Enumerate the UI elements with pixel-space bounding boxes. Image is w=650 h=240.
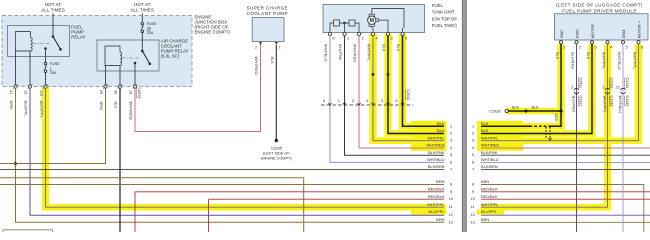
svg-text:BLK: BLK (532, 106, 540, 110)
C2032 pin chevrons (329, 103, 405, 106)
svg-text:BLU/PPL: BLU/PPL (24, 101, 29, 118)
svg-text:WHT/PPL: WHT/PPL (39, 101, 44, 119)
highlight module pin4 WHT/PPL to row 11 (481, 44, 611, 210)
svg-text:WHT/PPL: WHT/PPL (481, 202, 499, 207)
svg-text:119: 119 (39, 90, 43, 96)
svg-text:1: 1 (450, 124, 452, 128)
svg-text:BRN: BRN (481, 179, 489, 184)
wire BLK pump to ground C2635 (275, 45, 278, 142)
svg-text:WHT/PPL: WHT/PPL (481, 135, 499, 140)
svg-text:1: 1 (50, 67, 52, 71)
super charge pump pin 2 (255, 42, 262, 49)
svg-text:3: 3 (450, 139, 452, 143)
left page row labels 1-13 (426, 121, 445, 222)
svg-text:WHT/BLU: WHT/BLU (617, 52, 622, 70)
svg-text:FUEL: FUEL (432, 3, 444, 8)
svg-text:BLK: BLK (481, 128, 489, 133)
wire relay2 coil left leg BRN (105, 66, 107, 87)
module pin label MOTOR + (637, 20, 641, 38)
wire fuse38 to relay2 switch (141, 33, 143, 51)
connector label C2412 (579, 96, 583, 107)
row 8 BRN wire right page with bend down (481, 185, 644, 233)
svg-text:10: 10 (449, 197, 453, 201)
svg-text:ENGINE COMPT): ENGINE COMPT) (195, 30, 231, 35)
svg-text:BLK: BLK (114, 102, 119, 110)
extra BRN wire to lower component (0, 178, 304, 232)
wire label BLK module pin3 (586, 52, 591, 60)
svg-text:RED/BLK: RED/BLK (428, 186, 445, 191)
svg-text:BRN: BRN (481, 217, 489, 222)
svg-text:6: 6 (472, 160, 474, 164)
svg-text:BLK: BLK (270, 57, 275, 65)
wire module pin6 WHT/PPL to row 3 (481, 44, 639, 141)
svg-text:BRN: BRN (99, 102, 104, 110)
row 9 RED/BLK wire left page (135, 192, 444, 232)
fuel tank unit box (323, 5, 425, 33)
svg-text:WHT/BLU: WHT/BLU (481, 157, 499, 162)
connector label C2243 (610, 78, 614, 89)
splice dot WHT/PPL (372, 73, 375, 76)
wire WHT/BLU to row 6 (330, 36, 444, 163)
highlight label block rows 1-4 left page (411, 121, 447, 151)
svg-text:19: 19 (24, 90, 28, 94)
wire WHT/PPL 119 vertical to row 11 (46, 88, 445, 207)
svg-text:4: 4 (610, 46, 612, 50)
air charge coolant pump relay box (97, 40, 159, 71)
svg-text:10: 10 (471, 197, 475, 201)
module pin label GND (560, 30, 564, 39)
C2032 pin numbers (323, 99, 398, 103)
svg-text:BRN: BRN (436, 217, 444, 222)
svg-text:WHT/PPL: WHT/PPL (427, 135, 445, 140)
wire label WHT/PPL 119 (39, 101, 44, 119)
svg-text:(LEFT SIDE OF LUGGAGE COMPT): (LEFT SIDE OF LUGGAGE COMPT) (556, 3, 643, 8)
svg-text:BLK: BLK (437, 121, 445, 126)
wire label BRN 21 (9, 101, 14, 109)
svg-text:11: 11 (471, 205, 475, 209)
svg-text:WHT/RED: WHT/RED (426, 143, 444, 148)
wire label BLK tank pin3 (382, 44, 387, 52)
svg-text:11: 11 (449, 205, 453, 209)
highlight module pin1 BLK to row 1 and C2928 branch (481, 44, 565, 129)
svg-text:ENGINE COMPT): ENGINE COMPT) (261, 157, 292, 161)
svg-text:2: 2 (472, 132, 474, 136)
wire label BLU/RED module pin2 (570, 52, 575, 69)
engine junction box (dashed, blue fill) (2, 16, 192, 87)
svg-text:8: 8 (472, 183, 474, 187)
svg-text:2: 2 (450, 132, 452, 136)
svg-text:3: 3 (381, 99, 383, 103)
right page row labels 1-13 (481, 121, 499, 222)
svg-text:M: M (370, 18, 374, 24)
wire label BLK/PNK tank (338, 44, 343, 61)
junction dot pin1 C2928 (559, 109, 562, 112)
circuit number 19 (24, 90, 28, 94)
wire label WHT/BLU below connector (618, 96, 623, 114)
svg-text:C2411: C2411 (579, 78, 583, 89)
wire BLK 30 vertical off page (119, 88, 121, 232)
highlight BLK fuel tank pin3 (row 2) (385, 34, 447, 134)
svg-text:4: 4 (366, 99, 368, 103)
junction dot BRN (14, 162, 17, 165)
HOT AT ALL TIMES (right) (130, 2, 154, 13)
svg-text:FUSE: FUSE (50, 62, 60, 66)
connector C2032 dashed line (321, 104, 413, 106)
svg-text:WHT/RED: WHT/RED (353, 44, 358, 62)
svg-text:BLK: BLK (437, 128, 445, 133)
svg-text:ALL TIMES: ALL TIMES (41, 8, 65, 13)
wire module pin5 WHT/BLU down off page (622, 44, 624, 232)
svg-text:2: 2 (579, 46, 581, 50)
row 12 BLU/PPL wire right page (481, 214, 650, 216)
svg-text:13: 13 (449, 220, 453, 224)
row 8 BRN wire left page (0, 184, 444, 186)
fuel pump relay actuator dash line (33, 43, 50, 45)
fuel level sender resistors (330, 20, 359, 28)
wire module pin2 BLU/RED down off page (576, 44, 578, 232)
super charge coolant pump box (252, 18, 284, 42)
svg-text:MOTOR +: MOTOR + (637, 20, 641, 38)
svg-text:30: 30 (114, 90, 118, 94)
fuse 1 25A (44, 62, 60, 75)
svg-text:NCA: NCA (554, 114, 558, 122)
row 9 RED/BLK wire right page (481, 191, 650, 193)
wire label WHT/RED 19 (129, 102, 134, 120)
svg-text:1: 1 (279, 45, 281, 49)
circuit number 21 (9, 90, 13, 94)
svg-text:WHT/RED: WHT/RED (129, 102, 134, 120)
svg-text:2: 2 (352, 99, 354, 103)
fuel tank pin numbers (333, 36, 408, 40)
module pin label DNM (622, 30, 626, 39)
wire label WHT/RED pump (254, 57, 259, 75)
svg-text:(LEFT SIDE OF: (LEFT SIDE OF (263, 152, 290, 156)
svg-text:WHT/RED: WHT/RED (481, 143, 499, 148)
wire BRN 21 vertical to row 13 (16, 88, 445, 222)
fuse 38 20A (141, 22, 157, 35)
svg-text:BLU/RED: BLU/RED (572, 96, 577, 113)
svg-text:4: 4 (472, 146, 474, 150)
svg-text:BRN: BRN (436, 179, 444, 184)
svg-text:BLK: BLK (396, 44, 401, 52)
splice dot BLK (387, 73, 390, 76)
svg-text:8: 8 (450, 183, 452, 187)
svg-text:6: 6 (333, 36, 335, 40)
fuel pump relay label (71, 25, 85, 40)
highlight module pin3 BLK to row 2 (481, 44, 596, 137)
row 4 WHT/RED wire right page (481, 147, 650, 149)
svg-text:3: 3 (391, 36, 393, 40)
wire label BLK 30 (114, 102, 119, 110)
wire label WHT/PPL tank (367, 44, 372, 62)
svg-text:1: 1 (602, 85, 604, 89)
dotted jumper row1 to row3 (546, 127, 552, 140)
super charge pump pin 1 (275, 42, 281, 49)
svg-text:SUPER CHARGE: SUPER CHARGE (247, 5, 288, 10)
svg-text:2: 2 (255, 45, 257, 49)
fuel pump relay coil (16, 32, 33, 52)
highlight row12 label right page (477, 210, 504, 215)
wire BLK/PNK to row 5 (345, 36, 445, 156)
svg-text:ALL TIMES: ALL TIMES (130, 8, 154, 13)
svg-text:COOLANT PUMP: COOLANT PUMP (247, 11, 288, 16)
svg-text:WHT/PPL: WHT/PPL (367, 44, 372, 62)
wire label WHT/PPL below connector (603, 96, 608, 114)
svg-text:RELAY: RELAY (71, 35, 85, 40)
wire relay1 coil right leg (29, 51, 31, 87)
svg-text:(5.0L SC): (5.0L SC) (161, 54, 180, 59)
highlight row12 label left page (411, 210, 447, 215)
left page row numbers 1-13 (449, 124, 453, 224)
svg-text:WHT/BLU: WHT/BLU (618, 96, 623, 114)
wire label WHT/PPL module pin4 (601, 52, 606, 70)
svg-text:2: 2 (362, 36, 364, 40)
svg-text:C2635: C2635 (271, 147, 282, 151)
svg-text:1: 1 (347, 36, 349, 40)
highlight module pin6 WHT/PPL to row 3 (481, 44, 642, 144)
svg-text:WHT/PPL: WHT/PPL (632, 52, 637, 70)
connector label C2032 (406, 90, 410, 101)
air charge relay switch (134, 50, 151, 65)
engine junction box label (195, 15, 231, 35)
wire relay1 coil left leg (15, 51, 17, 87)
svg-text:GND: GND (560, 30, 564, 39)
wire fuse1 to connector (45, 73, 47, 87)
connector label C2241 (625, 78, 629, 89)
wire module pin1 BLK to row 1 (481, 44, 561, 126)
row 7 BLK/BRN wire left page (0, 169, 444, 171)
svg-text:7: 7 (472, 168, 474, 172)
svg-text:DNM: DNM (622, 30, 626, 39)
svg-text:C2246: C2246 (610, 96, 614, 107)
svg-text:25A: 25A (50, 71, 57, 75)
circuit number 29 (99, 90, 103, 94)
wire label WHT/PPL module pin6 (632, 52, 637, 70)
svg-text:6: 6 (450, 160, 452, 164)
fuel pump motor wiring (372, 9, 404, 29)
highlight WHT/PPL fuel pump feed (row 3) (370, 34, 447, 141)
svg-text:BLK/PNK: BLK/PNK (428, 150, 445, 155)
wire label BRN 29 (99, 102, 104, 110)
ground C2635 label (261, 147, 292, 161)
svg-text:9: 9 (450, 190, 452, 194)
svg-text:WHT/RED: WHT/RED (254, 57, 259, 75)
row 5 BLK/PNK wire right page (481, 154, 650, 156)
fuel pump relay box (8, 26, 70, 57)
svg-text:1: 1 (337, 99, 339, 103)
svg-text:9: 9 (472, 190, 474, 194)
row 13 BRN wire right page (481, 221, 650, 223)
fuel pump driver module box (555, 14, 649, 40)
svg-text:5: 5 (395, 99, 397, 103)
svg-text:BLU/RED: BLU/RED (570, 52, 575, 69)
wire label WHT/BLU module pin5 (617, 52, 622, 70)
svg-text:TANK UNIT: TANK UNIT (432, 10, 455, 15)
fuel tank unit pin circles (328, 28, 404, 36)
svg-text:6: 6 (641, 46, 643, 50)
highlight label block rows 1-4 right page (477, 121, 523, 151)
svg-text:BLK: BLK (481, 121, 489, 126)
svg-text:7: 7 (450, 168, 452, 172)
air charge coolant pump relay label (161, 39, 189, 59)
svg-text:HOT AT: HOT AT (45, 2, 62, 7)
connector label C2411 (579, 78, 583, 89)
svg-text:DIAG: DIAG (575, 29, 579, 38)
svg-text:20A: 20A (147, 31, 154, 35)
svg-text:29: 29 (99, 90, 103, 94)
wire relay2 common leg WHT/RED (134, 63, 136, 87)
svg-text:BLK: BLK (512, 106, 520, 110)
page divider (462, 0, 467, 232)
svg-text:BLK: BLK (586, 52, 591, 60)
svg-text:WHT/PPL: WHT/PPL (603, 96, 608, 114)
svg-text:5: 5 (450, 153, 452, 157)
module pin label DIAG (575, 29, 579, 38)
svg-text:3: 3 (472, 139, 474, 143)
svg-text:BRN: BRN (9, 101, 14, 109)
wire module pin4 WHT/PPL to row 11 (481, 44, 608, 207)
wire WHT/PPL to row 3 (373, 36, 444, 141)
C2928 ground wire (489, 106, 561, 114)
svg-text:1: 1 (564, 46, 566, 50)
wire label WHT/BLU tank (324, 44, 329, 62)
svg-text:FUEL PUMP DRIVER MODULE: FUEL PUMP DRIVER MODULE (562, 8, 637, 13)
fuel pump motor M (368, 14, 379, 26)
svg-text:BLK/BRN: BLK/BRN (428, 164, 445, 169)
inline connector on pin2 (571, 85, 579, 93)
connector label C8578 (137, 88, 141, 99)
svg-text:WHT/PPL: WHT/PPL (427, 202, 445, 207)
air charge relay actuator dash line (123, 57, 140, 59)
row 1 wire left page end segment (403, 125, 445, 127)
svg-text:WHT/BLU: WHT/BLU (324, 44, 329, 62)
svg-text:BLU/PPL: BLU/PPL (428, 209, 445, 214)
svg-text:C2928: C2928 (489, 110, 500, 114)
highlight WHT/PPL circuit 119 left page (row 11) (42, 87, 446, 207)
NCA label (554, 114, 558, 122)
svg-text:13: 13 (471, 220, 475, 224)
svg-text:4: 4 (376, 36, 378, 40)
svg-text:38: 38 (147, 27, 151, 31)
wire label BLK tank pin5 (396, 44, 401, 52)
connector label C2246 pin4 (610, 96, 614, 107)
svg-text:RED/BLK: RED/BLK (428, 194, 445, 199)
svg-text:C8578: C8578 (137, 88, 141, 99)
inline connector on pin5 (615, 85, 625, 93)
wire hot feed to fuel pump relay (52, 13, 54, 36)
svg-text:BLK: BLK (382, 44, 387, 52)
wire label BLK pump (270, 57, 275, 65)
right page row numbers 1-13 (471, 124, 475, 224)
svg-text:12: 12 (449, 213, 453, 217)
svg-text:RED/BLK: RED/BLK (481, 194, 498, 199)
svg-text:12: 12 (471, 213, 475, 217)
wire label BLK module pin1 (555, 52, 560, 60)
svg-text:WHT/BLU: WHT/BLU (427, 157, 445, 162)
wire hot feed to fuse 38 (141, 13, 143, 22)
wire label BLU/PPL 19 (24, 101, 29, 118)
svg-text:FUEL TANK): FUEL TANK) (432, 23, 458, 28)
svg-text:2: 2 (571, 85, 573, 89)
svg-text:RED/BLK: RED/BLK (481, 186, 498, 191)
row 7 BLK/BRN wire right page (481, 169, 650, 171)
module pin numbers (564, 46, 644, 50)
circuit number 30 (114, 90, 118, 94)
fuel pump relay switch (44, 35, 62, 50)
svg-text:BLU/PPL: BLU/PPL (481, 209, 498, 214)
svg-text:C2246: C2246 (625, 96, 629, 107)
inline connector on pin4 (602, 85, 610, 93)
wire WHT/RED relay2 to super charge pump (135, 42, 261, 132)
fuel tank unit label (432, 3, 458, 28)
svg-text:5: 5 (472, 153, 474, 157)
connector label C2246 pin5 (625, 96, 629, 107)
wire BLU/PPL 19 vertical to row 12 (30, 88, 444, 215)
svg-text:(ON TOP OF: (ON TOP OF (432, 16, 458, 21)
row 10 RED/BLK wire left page (209, 199, 445, 232)
wire relay1 common to fuse 1 (45, 49, 47, 63)
svg-text:BLK/PNK: BLK/PNK (481, 150, 498, 155)
svg-text:C2243: C2243 (610, 78, 614, 89)
svg-text:BLK/BRN: BLK/BRN (481, 164, 498, 169)
HOT AT ALL TIMES (left) (41, 2, 65, 13)
svg-text:BLK/PNK: BLK/PNK (338, 44, 343, 61)
svg-text:6: 6 (323, 99, 325, 103)
svg-text:22: 22 (615, 85, 619, 89)
svg-text:5: 5 (626, 46, 628, 50)
svg-text:3: 3 (595, 46, 597, 50)
svg-text:BLK: BLK (555, 52, 560, 60)
svg-text:WHT/PPL: WHT/PPL (601, 52, 606, 70)
row 10 RED/BLK wire right page (481, 198, 650, 200)
svg-text:FUSE: FUSE (147, 22, 157, 26)
connector circles on junction box border (13, 84, 138, 89)
super charge coolant pump label (247, 5, 288, 16)
wire relay2 coil right leg BLK (119, 66, 121, 87)
wire BRN 29 to left edge (0, 88, 106, 163)
fuel pump driver module header (556, 3, 643, 14)
svg-text:19: 19 (129, 90, 133, 94)
svg-text:21: 21 (9, 90, 13, 94)
air charge relay coil (105, 46, 122, 66)
module pin circles (559, 41, 640, 44)
wire label WHT/RED tank (353, 44, 358, 62)
wire BLK pin3 to row 2 (388, 36, 444, 134)
svg-text:C2241: C2241 (625, 78, 629, 89)
wire label BLU/RED below connector (572, 96, 577, 113)
highlight BLK fuel tank pin5 (row 1) (399, 34, 446, 127)
circuit number 19 relay2 (129, 90, 133, 94)
wire BLK pin5 to row 1 (403, 36, 445, 127)
svg-text:MOTOR -: MOTOR - (591, 21, 595, 38)
wire WHT/RED to row 4 (359, 36, 444, 148)
svg-text:C2412: C2412 (579, 96, 583, 107)
wire module pin3 BLK to row 2 (481, 44, 592, 134)
svg-text:1: 1 (472, 124, 474, 128)
module pin label MOTOR - (591, 21, 595, 38)
circuit number 119 (39, 90, 43, 96)
row 6 WHT/BLU wire right page (481, 161, 650, 163)
svg-text:C2032: C2032 (406, 90, 410, 101)
svg-text:HOT AT: HOT AT (134, 2, 151, 7)
partial component box bottom left (3, 230, 53, 232)
svg-text:4: 4 (450, 146, 452, 150)
svg-text:5: 5 (405, 36, 407, 40)
